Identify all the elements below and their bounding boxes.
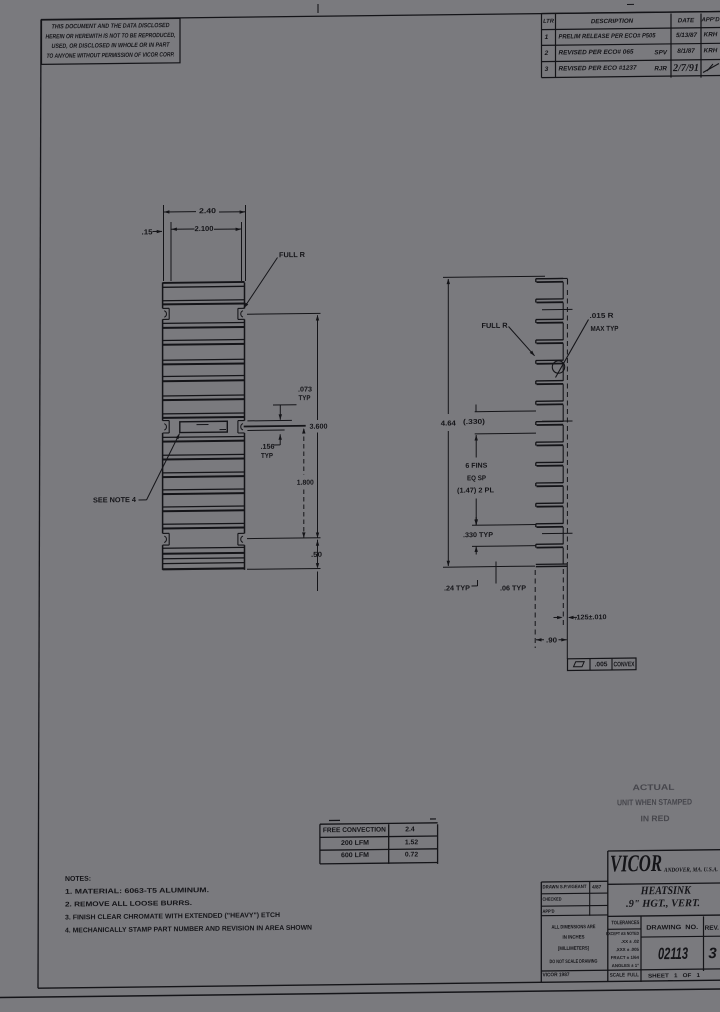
dimension .50 (317, 540, 319, 567)
svg-text:1.52: 1.52 (405, 839, 418, 846)
svg-text:3: 3 (545, 66, 549, 73)
svg-text:DRAWING NO.: DRAWING NO. (646, 924, 698, 932)
side view bottom edge (536, 563, 568, 565)
fin 12 (536, 502, 563, 504)
dimension (.330) pitch (475, 405, 477, 412)
fin 13 (536, 522, 563, 524)
svg-text:1: 1 (545, 34, 549, 41)
svg-text:3.600: 3.600 (310, 422, 328, 431)
svg-text:NOTES:: NOTES: (65, 876, 91, 883)
svg-text:.50: .50 (311, 550, 322, 559)
svg-text:KRH: KRH (704, 47, 718, 54)
svg-text:HEREIN OR HEREWITH IS NOT TO B: HEREIN OR HEREWITH IS NOT TO BE REPRODUC… (46, 32, 176, 41)
svg-text:1. MATERIAL: 6063-T5 ALUMINUM.: 1. MATERIAL: 6063-T5 ALUMINUM. (65, 887, 209, 896)
border frame left (38, 20, 41, 989)
svg-text:IN INCHES: IN INCHES (563, 934, 586, 940)
svg-text:(.330): (.330) (463, 419, 485, 426)
svg-text:600 LFM: 600 LFM (341, 852, 369, 859)
svg-text:DESCRIPTION: DESCRIPTION (591, 18, 634, 26)
svg-text:.XX ± .02: .XX ± .02 (621, 939, 640, 944)
svg-text:ANGLES ± 1°: ANGLES ± 1° (612, 963, 640, 968)
extension dashed fin tip (534, 570, 536, 648)
svg-text:2.4: 2.4 (405, 826, 415, 833)
fin 6 (536, 380, 563, 382)
front view mounting notches (163, 307, 170, 309)
dimension 1.800 (303, 429, 305, 475)
svg-text:REV.: REV. (705, 925, 720, 932)
front view fin face lines (163, 281, 245, 284)
flatness control frame (568, 658, 637, 671)
svg-text:PRELIM RELEASE PER ECO# P505: PRELIM RELEASE PER ECO# P505 (559, 32, 656, 40)
front view body left edge (162, 282, 164, 308)
fin 3 (536, 318, 563, 320)
svg-text:FREE CONVECTION: FREE CONVECTION (323, 827, 386, 835)
svg-text:FULL R: FULL R (279, 250, 306, 259)
fin 1 (536, 277, 563, 279)
proprietary note box (42, 18, 181, 64)
dimension .330 TYP (472, 524, 536, 527)
svg-text:CONVEX: CONVEX (614, 661, 635, 668)
front view body right edge (244, 282, 246, 308)
dimension .90 (536, 639, 544, 641)
svg-text:8/1/87: 8/1/87 (677, 48, 695, 55)
registration tick top right (627, 3, 634, 5)
border frame bottom (38, 980, 720, 988)
fin 8 (536, 420, 563, 422)
dimension 3.600 (317, 315, 319, 420)
fin 11 (536, 482, 563, 484)
svg-text:.15: .15 (142, 227, 153, 236)
svg-text:.24 TYP: .24 TYP (444, 585, 470, 592)
sheet bottom edge line (0, 989, 720, 998)
svg-text:.XXX ± .005: .XXX ± .005 (616, 947, 640, 952)
svg-text:.06 TYP: .06 TYP (500, 585, 526, 592)
svg-text:MAX TYP: MAX TYP (591, 326, 619, 333)
svg-text:DO NOT SCALE DRAWING: DO NOT SCALE DRAWING (550, 959, 598, 966)
svg-text:VICOR: VICOR (610, 851, 662, 878)
svg-text:SPV: SPV (654, 49, 667, 56)
fin 2 (536, 298, 563, 300)
svg-text:TYP: TYP (261, 453, 273, 460)
svg-text:REVISED PER ECO #1237: REVISED PER ECO #1237 (559, 65, 637, 73)
svg-text:ACTUAL: ACTUAL (632, 783, 674, 792)
thermal resistance table (320, 823, 438, 824)
svg-text:ALL DIMENSIONS ARE: ALL DIMENSIONS ARE (551, 924, 596, 931)
fin 10 (536, 461, 563, 463)
svg-text:LTR: LTR (543, 19, 555, 25)
side view base back hidden line (566, 290, 568, 563)
fin 9 (536, 441, 563, 443)
dimension .125±.010 (554, 616, 562, 618)
svg-text:3: 3 (708, 945, 717, 962)
bottom notch center extension (247, 537, 321, 540)
svg-text:3. FINISH CLEAR CHROMATE WITH: 3. FINISH CLEAR CHROMATE WITH EXTENDED (… (65, 912, 280, 922)
svg-text:4.64: 4.64 (441, 418, 456, 427)
svg-text:.125±.010: .125±.010 (575, 614, 607, 621)
svg-text:.156: .156 (261, 444, 275, 451)
side view base back extension to datum (566, 563, 568, 659)
svg-text:.005: .005 (595, 661, 608, 668)
svg-text:SCALE FULL: SCALE FULL (610, 972, 640, 978)
title block outline (540, 882, 542, 982)
svg-text:EXCEPT AS NOTED: EXCEPT AS NOTED (606, 931, 639, 936)
svg-text:ANDOVER, MA. U.S.A.: ANDOVER, MA. U.S.A. (663, 867, 718, 874)
svg-text:6 FINS: 6 FINS (465, 463, 487, 470)
svg-text:2: 2 (544, 50, 549, 57)
svg-text:0.72: 0.72 (405, 851, 418, 858)
side view notch center marks (542, 308, 573, 310)
svg-text:SHEET 1 OF 1: SHEET 1 OF 1 (648, 973, 700, 980)
svg-text:UNIT WHEN STAMPED: UNIT WHEN STAMPED (617, 797, 692, 807)
svg-text:TYP: TYP (298, 395, 310, 402)
svg-text:FULL R: FULL R (482, 321, 509, 330)
fin 4 (536, 339, 563, 341)
body bottom extension (247, 567, 321, 570)
svg-text:02113: 02113 (658, 945, 688, 963)
speck marks above table (329, 819, 340, 821)
svg-text:.015 R: .015 R (590, 313, 614, 320)
svg-text:(1.47) 2 PL: (1.47) 2 PL (457, 487, 495, 494)
fin 7 (536, 400, 563, 402)
fin 5 (536, 359, 563, 361)
svg-text:2. REMOVE ALL LOOSE BURRS.: 2. REMOVE ALL LOOSE BURRS. (65, 900, 192, 908)
svg-text:2/7/91: 2/7/91 (672, 63, 699, 74)
top notch center extension (247, 312, 321, 315)
svg-text:VICOR 1987: VICOR 1987 (543, 972, 570, 978)
svg-text:[MILLIMETERS]: [MILLIMETERS] (558, 946, 589, 952)
svg-text:CHECKED: CHECKED (543, 897, 562, 903)
extension dashed base front (562, 569, 564, 625)
svg-text:THIS DOCUMENT AND THE DATA DIS: THIS DOCUMENT AND THE DATA DISCLOSED (52, 22, 170, 30)
title block vicor box (608, 850, 720, 851)
svg-text:APP'D: APP'D (700, 17, 720, 23)
registration tick top left (317, 4, 319, 13)
dimension 2.40 (163, 205, 165, 281)
stamp area rectangle (note 4) (180, 421, 228, 432)
svg-text:2.40: 2.40 (199, 206, 216, 215)
svg-text:5/13/87: 5/13/87 (676, 32, 698, 39)
svg-text:.9" HGT., VERT.: .9" HGT., VERT. (626, 898, 700, 910)
svg-text:SEE NOTE 4: SEE NOTE 4 (93, 495, 136, 505)
svg-text:USED, OR DISCLOSED IN WHOLE OR: USED, OR DISCLOSED IN WHOLE OR IN PART (52, 42, 171, 50)
svg-text:.90: .90 (546, 635, 557, 644)
svg-text:1.800: 1.800 (297, 478, 314, 487)
svg-text:DRAWN S.P.VIGEANT: DRAWN S.P.VIGEANT (543, 884, 587, 891)
svg-text:TOLERANCES: TOLERANCES (611, 920, 639, 926)
svg-text:EQ SP: EQ SP (467, 475, 486, 482)
svg-text:.330 TYP: .330 TYP (463, 532, 493, 539)
svg-text:HEATSINK: HEATSINK (640, 885, 692, 898)
svg-text:200 LFM: 200 LFM (341, 840, 369, 847)
fin 14 (536, 543, 563, 545)
svg-text:RJR: RJR (654, 65, 667, 72)
svg-text:TO ANYONE WITHOUT PERMISSION O: TO ANYONE WITHOUT PERMISSION OF VICOR CO… (46, 51, 174, 59)
svg-text:KRH: KRH (704, 31, 718, 38)
revision table grid (542, 11, 720, 13)
svg-text:4. MECHANICALLY STAMP PART NUM: 4. MECHANICALLY STAMP PART NUMBER AND RE… (65, 925, 312, 935)
svg-text:APP'D: APP'D (543, 909, 555, 915)
middle notch extension lines (247, 419, 292, 422)
svg-text:IN RED: IN RED (641, 814, 670, 823)
svg-text:.073: .073 (298, 386, 312, 393)
svg-text:2.100: 2.100 (195, 224, 214, 233)
revision row 3 signature (703, 63, 719, 72)
dimension 2.100 (170, 222, 172, 281)
svg-text:FRACT ± 1/64: FRACT ± 1/64 (611, 955, 640, 960)
svg-text:REVISED PER ECO# 065: REVISED PER ECO# 065 (559, 49, 635, 57)
svg-text:4/87: 4/87 (592, 884, 602, 890)
side view top edge (536, 277, 568, 279)
dimension 4.64 (443, 276, 545, 277)
border frame top (41, 12, 720, 20)
svg-text:DATE: DATE (678, 17, 695, 24)
side view slot root verticals (562, 282, 564, 299)
